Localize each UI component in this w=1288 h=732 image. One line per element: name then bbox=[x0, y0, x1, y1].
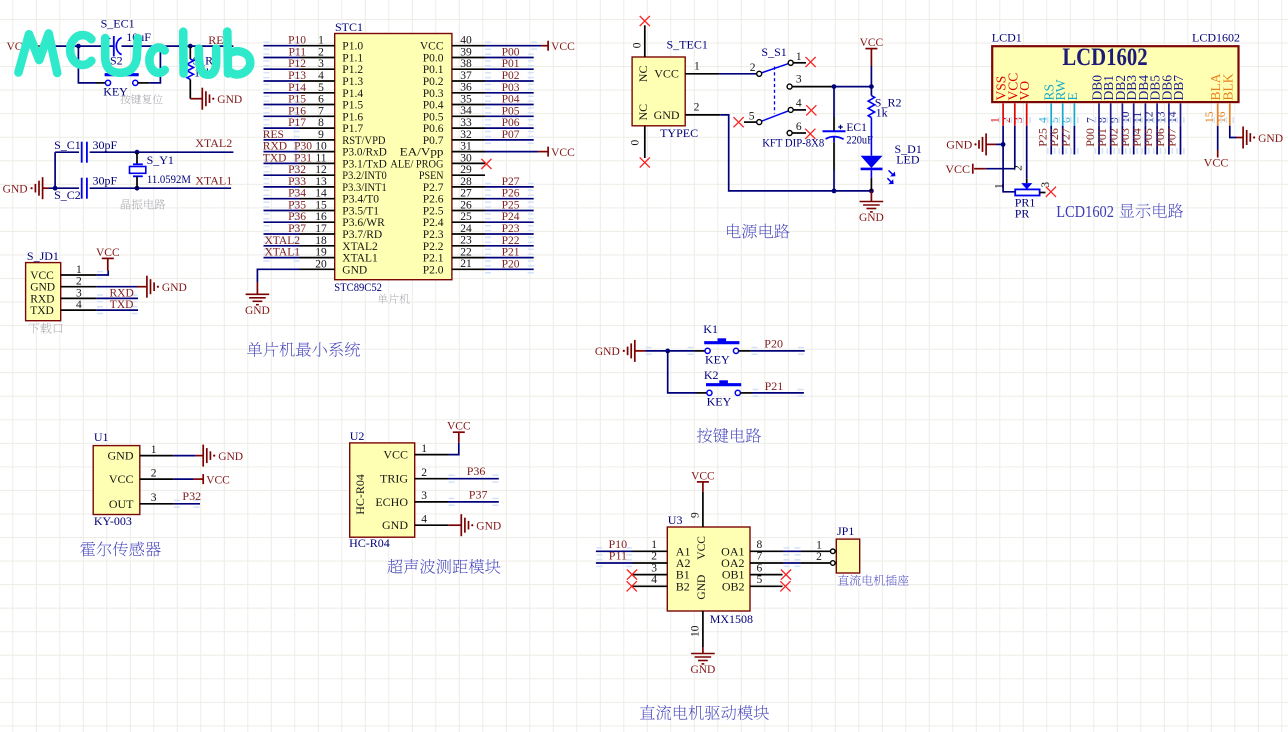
svg-text:P11: P11 bbox=[609, 549, 627, 563]
svg-text:P0.7: P0.7 bbox=[423, 135, 444, 147]
pin 10 (U3 GND bottom) bbox=[702, 611, 704, 647]
pin 15 (STC1 left) bbox=[300, 210, 335, 212]
svg-text:K1: K1 bbox=[703, 322, 718, 336]
svg-text:2: 2 bbox=[750, 62, 756, 74]
svg-text:3: 3 bbox=[651, 562, 657, 574]
svg-text:3: 3 bbox=[796, 74, 802, 86]
pin 2 (U3 A2) bbox=[633, 562, 668, 564]
wire net row 14 left bbox=[264, 198, 300, 200]
wire VCC pin2 bbox=[1014, 126, 1016, 169]
wire RES net horizontal bbox=[42, 45, 114, 47]
svg-text:P17: P17 bbox=[288, 117, 306, 129]
svg-text:LCD1: LCD1 bbox=[992, 31, 1022, 45]
wire VCC to switch bbox=[719, 73, 757, 75]
wire net row 12 left bbox=[264, 174, 300, 176]
svg-text:1: 1 bbox=[151, 444, 157, 456]
svg-text:P01: P01 bbox=[502, 58, 520, 70]
IC STC1 STC89C52 body bbox=[335, 34, 452, 280]
wire P20 bbox=[751, 350, 805, 352]
svg-text:P02: P02 bbox=[502, 70, 520, 82]
crystal S_Y1 bbox=[136, 152, 138, 164]
svg-text:20: 20 bbox=[315, 258, 327, 270]
switch S_S1 pole 2-1 bbox=[762, 64, 789, 73]
svg-text:P3.6/WR: P3.6/WR bbox=[342, 217, 385, 229]
svg-text:6: 6 bbox=[318, 94, 324, 106]
wire net P02 bbox=[485, 80, 534, 82]
svg-text:P2.0: P2.0 bbox=[423, 264, 444, 276]
svg-text:GND: GND bbox=[218, 451, 243, 463]
wire GND to K1 bbox=[645, 350, 694, 352]
pin 6 (STC1 left) bbox=[300, 104, 335, 106]
svg-text:9: 9 bbox=[318, 129, 324, 141]
pin 31 (STC1 right) bbox=[452, 151, 485, 153]
pin 28 (STC1 right) bbox=[452, 186, 485, 188]
svg-text:P27: P27 bbox=[1059, 128, 1073, 147]
pushbutton S2 bbox=[117, 70, 126, 73]
svg-text:29: 29 bbox=[460, 164, 472, 176]
svg-text:P2.7: P2.7 bbox=[423, 182, 444, 194]
svg-text:P26: P26 bbox=[502, 188, 520, 200]
svg-text:TXD: TXD bbox=[110, 299, 134, 311]
svg-text:P1.3: P1.3 bbox=[342, 76, 363, 88]
svg-text:P2.4: P2.4 bbox=[423, 217, 444, 229]
svg-text:36: 36 bbox=[460, 82, 472, 94]
power port VCC (pin31) bbox=[538, 151, 549, 153]
pushbutton K1 bbox=[718, 338, 727, 341]
svg-text:P06: P06 bbox=[502, 117, 520, 129]
wire net P06 bbox=[485, 127, 534, 129]
svg-text:NC: NC bbox=[636, 104, 650, 121]
svg-text:NC: NC bbox=[636, 66, 650, 83]
power port VCC (pin40) bbox=[541, 45, 548, 47]
wire net row 5 left bbox=[264, 92, 300, 94]
svg-text:P1.4: P1.4 bbox=[342, 88, 363, 100]
wire P36 bbox=[448, 478, 499, 480]
svg-text:GND: GND bbox=[859, 212, 884, 224]
IC U2 body bbox=[350, 443, 415, 537]
svg-text:13: 13 bbox=[315, 176, 327, 188]
wire net row 18 left bbox=[264, 245, 300, 247]
svg-text:OB2: OB2 bbox=[722, 579, 745, 593]
wire VCC pin40 bbox=[485, 45, 541, 47]
ground GND (power circuit) bbox=[870, 191, 872, 202]
svg-text:P16: P16 bbox=[288, 105, 306, 117]
wire to K2 bbox=[668, 351, 696, 393]
svg-text:GND: GND bbox=[595, 346, 620, 358]
switch S_S1 pole 5-4 bbox=[762, 111, 789, 121]
pin 37 (STC1 right) bbox=[452, 80, 485, 82]
svg-text:P1.5: P1.5 bbox=[342, 100, 363, 112]
power port VCC (U2) bbox=[449, 443, 459, 455]
no-connect X PR1 pin3 bbox=[1046, 187, 1056, 197]
svg-text:VO: VO bbox=[1017, 81, 1032, 101]
svg-text:XTAL2: XTAL2 bbox=[265, 235, 301, 247]
pin 24 (STC1 right) bbox=[452, 233, 485, 235]
svg-text:28: 28 bbox=[460, 176, 472, 188]
no-connect X bottom shield bbox=[640, 157, 650, 167]
pin 9 (STC1 left) bbox=[300, 139, 335, 141]
svg-text:PR: PR bbox=[1015, 207, 1030, 221]
svg-text:GND: GND bbox=[3, 184, 28, 196]
annotation 下载口 bbox=[28, 323, 62, 334]
node junction at C2 left bbox=[53, 186, 58, 191]
switch S_S1 pin 3 terminal bbox=[787, 84, 792, 89]
IC LCD1 pin stubs bbox=[1002, 103, 1004, 126]
svg-text:8: 8 bbox=[757, 539, 763, 551]
svg-text:P15: P15 bbox=[288, 94, 306, 106]
switch S_S1 pin 6 terminal bbox=[787, 131, 792, 136]
svg-text:GND: GND bbox=[946, 138, 972, 152]
wire net P00 bbox=[485, 57, 534, 59]
connector S_JD1 body bbox=[26, 263, 61, 321]
wire RXD bbox=[97, 297, 138, 299]
svg-text:P3.7/RD: P3.7/RD bbox=[342, 229, 382, 241]
svg-text:P04: P04 bbox=[502, 94, 520, 106]
svg-text:VCC: VCC bbox=[206, 474, 230, 486]
svg-text:7: 7 bbox=[318, 105, 324, 117]
wire net P25 bbox=[485, 210, 534, 212]
no-connect X pin30 bbox=[481, 159, 491, 169]
pin 27 (STC1 right) bbox=[452, 198, 485, 200]
wire net row 19 left bbox=[264, 257, 300, 259]
wire net P27 bbox=[485, 186, 534, 188]
svg-text:RXD: RXD bbox=[263, 141, 287, 153]
wire net P03 bbox=[485, 92, 534, 94]
svg-text:P31: P31 bbox=[294, 152, 312, 164]
capacitor S_C1 30pF bbox=[55, 151, 79, 153]
svg-text:E: E bbox=[1065, 92, 1080, 100]
svg-text:GND: GND bbox=[476, 521, 501, 533]
pin 7 (U3 OA2) bbox=[750, 562, 783, 564]
wire GND to C2 bbox=[49, 187, 79, 189]
pin 11 (STC1 left) bbox=[300, 162, 335, 164]
IC U1 body bbox=[93, 446, 140, 515]
wire net row 11 left bbox=[264, 162, 300, 164]
wire P21 bbox=[752, 392, 804, 394]
wire net row 15 left bbox=[264, 210, 300, 212]
pin 30 (STC1 right) bbox=[452, 162, 485, 164]
pin 1 (U2 VCC) bbox=[415, 454, 449, 456]
svg-text:17: 17 bbox=[315, 223, 327, 235]
S_S1 pin6 stub and X bbox=[792, 132, 806, 134]
svg-text:14: 14 bbox=[315, 188, 327, 200]
svg-text:VCC: VCC bbox=[551, 147, 575, 159]
pin 2 (STC1 left) bbox=[300, 57, 335, 59]
svg-text:RST/VPD: RST/VPD bbox=[342, 135, 385, 147]
pin 9 (U3 VCC top) bbox=[702, 492, 704, 527]
pin 3 (STC1 left) bbox=[300, 68, 335, 70]
wire net row 7 left bbox=[264, 115, 300, 117]
wire XTAL2 bbox=[90, 151, 234, 153]
wire P10 bbox=[596, 550, 633, 552]
pin 8 (U3 OA1) bbox=[750, 550, 783, 552]
svg-text:4: 4 bbox=[421, 514, 427, 526]
svg-text:GND: GND bbox=[30, 282, 55, 294]
svg-text:40: 40 bbox=[460, 35, 472, 47]
pin 4 (STC1 left) bbox=[300, 80, 335, 82]
svg-text:35: 35 bbox=[460, 94, 472, 106]
svg-text:6: 6 bbox=[757, 562, 763, 574]
svg-text:3: 3 bbox=[76, 287, 82, 299]
node junction LED bottom bbox=[869, 189, 874, 194]
svg-text:P25: P25 bbox=[502, 200, 520, 212]
svg-text:5: 5 bbox=[318, 82, 324, 94]
pin 7 (STC1 left) bbox=[300, 115, 335, 117]
svg-text:0: 0 bbox=[631, 42, 643, 48]
node junction pin3/R2 bbox=[869, 84, 874, 89]
svg-text:2: 2 bbox=[76, 276, 82, 288]
pin 26 (STC1 right) bbox=[452, 210, 485, 212]
pin 18 (STC1 left) bbox=[300, 245, 335, 247]
svg-text:P14: P14 bbox=[288, 82, 306, 94]
svg-text:U3: U3 bbox=[668, 513, 683, 527]
svg-text:DB7: DB7 bbox=[1171, 75, 1186, 101]
svg-text:5: 5 bbox=[757, 574, 763, 586]
svg-text:P0.1: P0.1 bbox=[423, 64, 444, 76]
node junction XTAL1 at crystal bbox=[135, 186, 140, 191]
svg-text:GND: GND bbox=[342, 264, 367, 276]
svg-text:P32: P32 bbox=[182, 489, 201, 503]
svg-text:HC-R04: HC-R04 bbox=[349, 536, 390, 550]
wire P11 bbox=[596, 562, 633, 564]
wire net P01 bbox=[485, 68, 534, 70]
pin 34 (STC1 right) bbox=[452, 115, 485, 117]
resistor S_R2 bbox=[870, 87, 872, 96]
svg-text:VCC: VCC bbox=[551, 41, 575, 53]
ground GND (LCD right) bbox=[1237, 137, 1244, 139]
pin 4 (U2 GND) bbox=[415, 524, 449, 526]
pushbutton K2 bbox=[719, 380, 728, 383]
svg-text:XTAL2: XTAL2 bbox=[195, 136, 232, 150]
pin 1 (JP1) bbox=[801, 550, 831, 552]
svg-text:VCC: VCC bbox=[96, 247, 120, 259]
svg-text:KEY: KEY bbox=[707, 395, 732, 409]
svg-text:LCD1602: LCD1602 bbox=[1062, 44, 1147, 71]
ground GND (S_JD1) bbox=[97, 286, 137, 288]
svg-text:KFT DIP-8X8: KFT DIP-8X8 bbox=[762, 138, 824, 150]
annotation 直流电机插座 bbox=[838, 575, 909, 586]
svg-text:P2.2: P2.2 bbox=[423, 241, 444, 253]
switch S_S1 pin 1 terminal bbox=[788, 60, 793, 65]
svg-text:VCC: VCC bbox=[109, 472, 134, 486]
ground GND (U2) bbox=[448, 524, 461, 526]
svg-text:33: 33 bbox=[460, 117, 472, 129]
svg-text:S2: S2 bbox=[110, 53, 123, 67]
pin 23 (STC1 right) bbox=[452, 245, 485, 247]
annotation 晶振电路 bbox=[121, 199, 166, 210]
switch S_S1 pin 4 terminal bbox=[788, 107, 793, 112]
svg-text:P27: P27 bbox=[502, 176, 520, 188]
node junction EC1 bottom bbox=[832, 189, 837, 194]
wire net P20 bbox=[485, 268, 534, 270]
svg-text:P2.3: P2.3 bbox=[423, 229, 444, 241]
svg-text:XTAL2: XTAL2 bbox=[342, 241, 378, 253]
pin 1 (STC1 left) bbox=[300, 45, 335, 47]
svg-text:1: 1 bbox=[651, 539, 657, 551]
svg-text:30: 30 bbox=[460, 152, 472, 164]
wire net P04 bbox=[485, 104, 534, 106]
pushbutton K1 lead left bbox=[694, 350, 705, 352]
annotation 按键复位 bbox=[120, 94, 162, 104]
pin 20 (STC1 GND) bbox=[300, 268, 335, 270]
svg-text:30pF: 30pF bbox=[93, 174, 118, 188]
svg-text:10: 10 bbox=[315, 141, 327, 153]
resistor S_R1 bbox=[189, 46, 191, 59]
svg-text:XTAL1: XTAL1 bbox=[265, 247, 301, 259]
wire OA2 to JP1 bbox=[783, 562, 801, 564]
svg-text:KY-003: KY-003 bbox=[94, 514, 132, 528]
svg-text:P30: P30 bbox=[294, 141, 312, 153]
wire OA1 to JP1 bbox=[783, 550, 801, 552]
pin 4 (U3 B2) with X bbox=[632, 585, 668, 587]
svg-text:GND: GND bbox=[690, 664, 715, 676]
svg-text:P13: P13 bbox=[288, 70, 306, 82]
svg-text:VCC: VCC bbox=[654, 67, 679, 81]
annotation 单片机 bbox=[378, 294, 410, 304]
pin 25 (STC1 right) bbox=[452, 221, 485, 223]
svg-text:VCC: VCC bbox=[691, 470, 715, 482]
capacitor S_C2 30pF bbox=[81, 178, 83, 199]
svg-text:GND: GND bbox=[217, 94, 242, 106]
pin 33 (STC1 right) bbox=[452, 127, 485, 129]
IC U3 body bbox=[667, 527, 750, 611]
ground GND (key circuit) bbox=[634, 340, 636, 362]
svg-text:EA/Vpp: EA/Vpp bbox=[400, 147, 444, 159]
svg-text:P1.6: P1.6 bbox=[342, 111, 363, 123]
wire GND bottom rail bbox=[720, 115, 871, 191]
capacitor S_EC1 10uF polarized bbox=[113, 36, 115, 56]
pin 14 (STC1 left) bbox=[300, 198, 335, 200]
svg-text:LCD1602: LCD1602 bbox=[1192, 31, 1240, 45]
pin 2 (S_JD1 GND) bbox=[61, 286, 97, 288]
power port VCC (S_JD1) bbox=[97, 271, 109, 276]
svg-text:RXD: RXD bbox=[30, 293, 54, 305]
node junction at S2 left bbox=[76, 44, 81, 49]
pin 1 (S_TEC1 VCC) bbox=[685, 73, 719, 75]
svg-text:P05: P05 bbox=[502, 105, 520, 117]
svg-text:S_TEC1: S_TEC1 bbox=[667, 38, 708, 52]
LED S_D1 emission arrows bbox=[887, 170, 892, 182]
pin 39 (STC1 right) bbox=[452, 57, 485, 59]
pushbutton K1 lead right bbox=[739, 350, 751, 352]
svg-text:S_S1: S_S1 bbox=[761, 45, 786, 59]
wire net row 2 left bbox=[264, 57, 300, 59]
node junction VSS/GND bbox=[1001, 142, 1006, 147]
pin 22 (STC1 right) bbox=[452, 257, 485, 259]
svg-text:RXD: RXD bbox=[110, 287, 134, 299]
svg-text:1: 1 bbox=[318, 35, 324, 47]
svg-text:TXD: TXD bbox=[263, 152, 287, 164]
wire net row 9 left bbox=[264, 139, 300, 141]
svg-text:S_Y1: S_Y1 bbox=[147, 153, 174, 167]
wire net P26 bbox=[485, 198, 534, 200]
svg-text:XTAL1: XTAL1 bbox=[195, 173, 232, 187]
title 超声波测距模块 bbox=[387, 559, 500, 574]
wire net row 10 left bbox=[264, 151, 300, 153]
wire S2 branch left vertical bbox=[78, 46, 96, 83]
pin 2 (U2 TRIG) bbox=[415, 478, 448, 480]
svg-text:2: 2 bbox=[651, 551, 657, 563]
svg-text:P23: P23 bbox=[502, 223, 520, 235]
pin 38 (STC1 right) bbox=[452, 68, 485, 70]
svg-text:GND: GND bbox=[696, 575, 708, 600]
pin 2 (JP1) bbox=[801, 562, 831, 564]
svg-text:P11: P11 bbox=[289, 47, 307, 59]
svg-text:11.0592M: 11.0592M bbox=[147, 174, 191, 186]
pin 3 (U2 ECHO) bbox=[415, 501, 448, 503]
svg-text:GND: GND bbox=[1258, 133, 1283, 145]
svg-text:U2: U2 bbox=[350, 429, 365, 443]
svg-text:2: 2 bbox=[694, 102, 700, 114]
ground GND (crystal) bbox=[42, 177, 44, 199]
wire S2 branch right vertical bbox=[149, 46, 160, 83]
pin 35 (STC1 right) bbox=[452, 104, 485, 106]
svg-text:1: 1 bbox=[421, 443, 427, 455]
switch S_S1 pin 2 terminal bbox=[757, 71, 762, 76]
svg-text:22: 22 bbox=[460, 247, 472, 259]
svg-text:P0.3: P0.3 bbox=[423, 88, 444, 100]
svg-text:P1.0: P1.0 bbox=[342, 41, 363, 53]
svg-text:38: 38 bbox=[460, 58, 472, 70]
svg-text:P22: P22 bbox=[502, 235, 520, 247]
svg-text:27: 27 bbox=[460, 188, 472, 200]
svg-text:ALE/ PROG: ALE/ PROG bbox=[390, 158, 443, 170]
power port VCC (backlight) bbox=[1217, 150, 1219, 158]
svg-text:P33: P33 bbox=[288, 176, 306, 188]
pin 2 (U1 VCC) bbox=[140, 478, 174, 480]
svg-text:P07: P07 bbox=[502, 129, 520, 141]
svg-text:LCD1602: LCD1602 bbox=[1056, 202, 1114, 221]
ground GND (LCD left) bbox=[996, 143, 1003, 145]
potentiometer PR1 body bbox=[1015, 189, 1039, 195]
node junction pin3/EC1 bbox=[832, 84, 837, 89]
svg-text:2: 2 bbox=[151, 467, 157, 479]
S_S1 pin4 stub and X bbox=[793, 109, 806, 111]
wire net P05 bbox=[485, 115, 534, 117]
svg-text:P36: P36 bbox=[288, 211, 306, 223]
svg-text:VCC: VCC bbox=[1204, 156, 1229, 170]
wire net row 17 left bbox=[264, 233, 300, 235]
pin 29 (STC1 right) bbox=[452, 174, 485, 176]
wire net P21 bbox=[485, 257, 534, 259]
svg-text:VCC: VCC bbox=[860, 37, 884, 49]
svg-text:32: 32 bbox=[460, 129, 472, 141]
svg-text:P07: P07 bbox=[1165, 128, 1179, 147]
svg-text:P37: P37 bbox=[288, 223, 306, 235]
S_S1 pin5 stub and X bbox=[744, 121, 757, 123]
svg-text:P10: P10 bbox=[288, 35, 306, 47]
svg-text:7: 7 bbox=[757, 551, 763, 563]
node junction XTAL2 at crystal bbox=[135, 150, 140, 155]
wire BLK to GND bbox=[1230, 126, 1237, 138]
svg-text:P37: P37 bbox=[469, 487, 488, 501]
svg-text:9: 9 bbox=[689, 512, 701, 518]
svg-text:P21: P21 bbox=[502, 247, 520, 259]
logo MCUclub bbox=[18, 32, 250, 75]
svg-text:P3.5/T1: P3.5/T1 bbox=[342, 206, 379, 218]
svg-text:HC-R04: HC-R04 bbox=[353, 474, 367, 515]
wire net row 4 left bbox=[264, 80, 300, 82]
title 单片机最小系统 bbox=[247, 342, 360, 357]
svg-text:1: 1 bbox=[796, 51, 802, 63]
svg-text:P3.4/T0: P3.4/T0 bbox=[342, 194, 379, 206]
connector S_TEC1 body bbox=[632, 57, 685, 126]
pushbutton K2 lead left bbox=[696, 392, 707, 394]
power port VCC (U1) bbox=[174, 478, 194, 480]
S_S1 pin1 stub and X bbox=[793, 62, 806, 64]
switch S_S1 pin 5 terminal bbox=[757, 120, 762, 125]
svg-text:19: 19 bbox=[315, 247, 327, 259]
